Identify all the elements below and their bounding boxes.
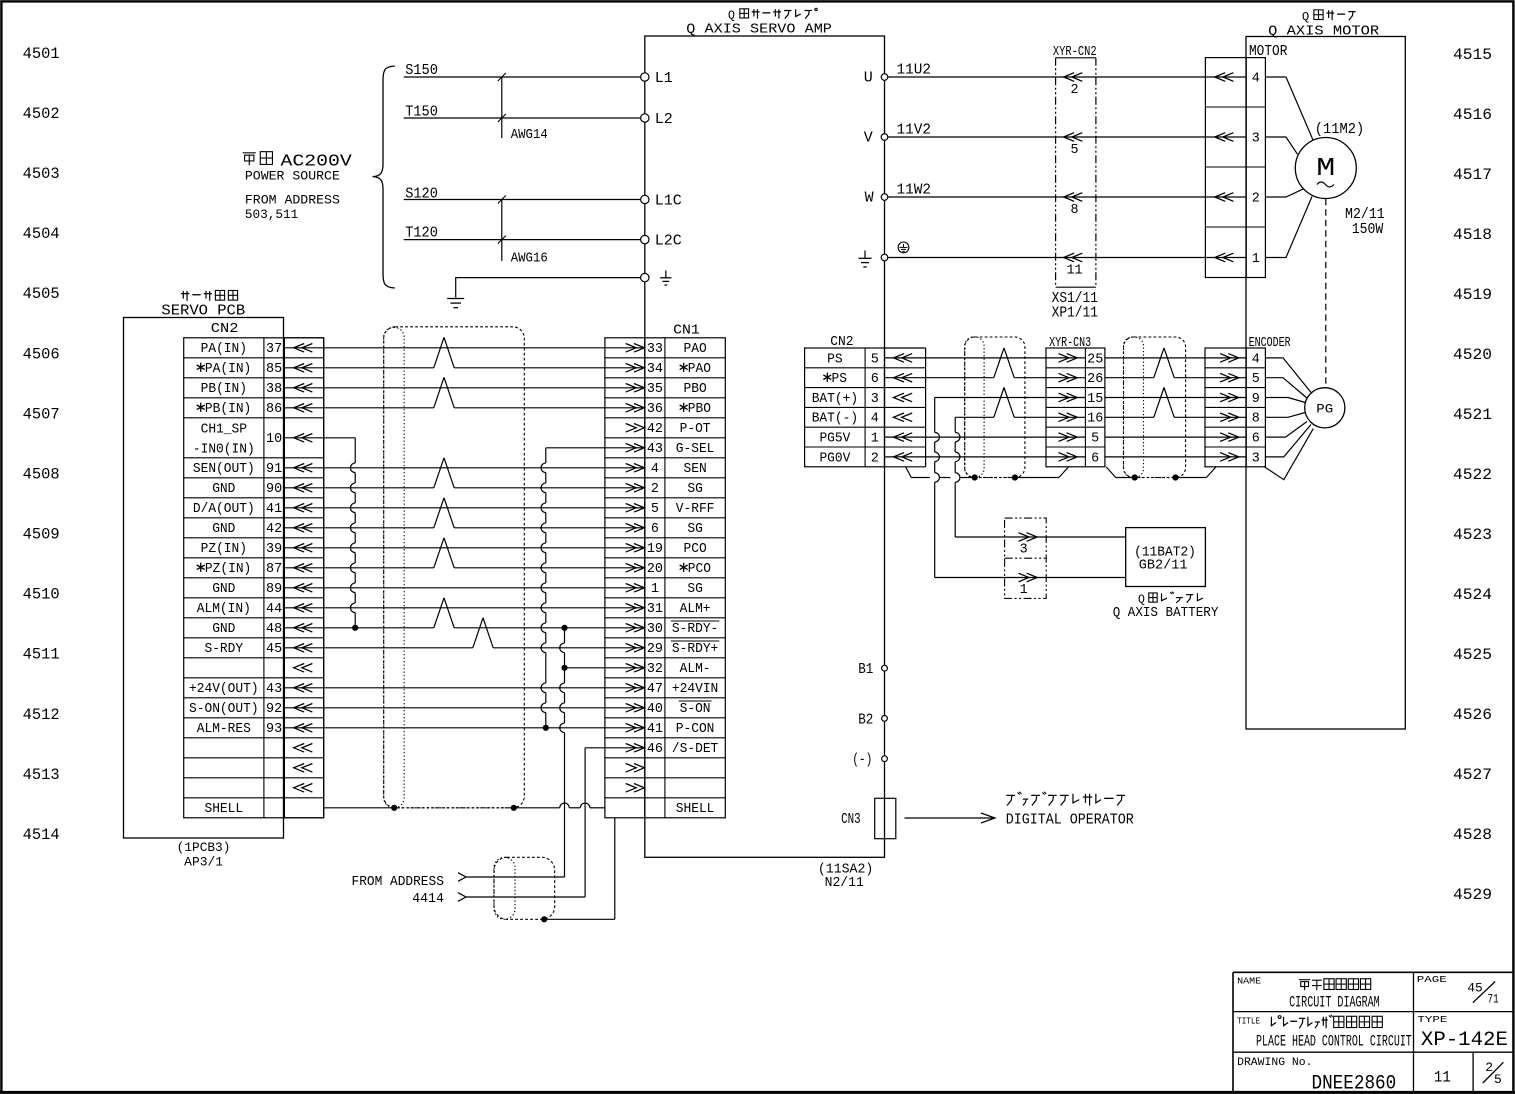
wire net ALM(IN)44 - ALM+31: [284, 607, 644, 609]
svg-text:2: 2: [871, 451, 879, 466]
svg-text:38: 38: [266, 382, 282, 397]
svg-text:V-RFF: V-RFF: [676, 502, 715, 517]
cable tie AWG14: [498, 73, 548, 143]
svg-text:PAO: PAO: [688, 362, 711, 377]
svg-text:4508: 4508: [23, 465, 60, 483]
title block frame: [1233, 972, 1513, 1092]
wire S120 to L1C: [404, 185, 642, 202]
svg-text:4528: 4528: [1453, 826, 1492, 844]
svg-text:5: 5: [1494, 1072, 1502, 1087]
svg-text:2: 2: [1070, 83, 1078, 98]
svg-text:11: 11: [1066, 264, 1082, 279]
svg-text:+24VIN: +24VIN: [672, 682, 718, 697]
svg-text:PB(IN): PB(IN): [205, 402, 251, 417]
svg-text:43: 43: [647, 442, 663, 457]
svg-text:20: 20: [647, 562, 663, 577]
svg-text:SHELL: SHELL: [676, 802, 715, 817]
wire net ALM-RES93 - P-CON41: [284, 727, 644, 729]
connector CN3 digital operator port: [875, 798, 896, 838]
svg-text:PBO: PBO: [684, 382, 707, 397]
svg-text:BAT(+): BAT(+): [812, 392, 858, 407]
svg-text:PCO: PCO: [688, 562, 711, 577]
svg-text:4513: 4513: [23, 766, 60, 784]
terminal L1C of servo amp: [641, 195, 649, 203]
svg-text:3: 3: [871, 392, 879, 407]
svg-text:44: 44: [266, 602, 282, 617]
svg-text:4521: 4521: [1453, 406, 1492, 424]
motor unit box (11M2): [1246, 37, 1405, 730]
connector ENCODER pin table: [1205, 348, 1265, 467]
wire net PB(IN)38 - PBO35: [284, 387, 644, 389]
right margin row numbers 4515-4529: [1453, 46, 1492, 904]
wire T120 to L2C: [404, 225, 642, 242]
svg-text:M2/11: M2/11: [1345, 207, 1385, 223]
svg-text:3: 3: [1252, 132, 1260, 147]
wire motor pin 4 to M: [1265, 77, 1313, 140]
svg-text:6: 6: [651, 522, 659, 537]
terminal B2: [882, 716, 888, 722]
connector XYR-CN3 table: [1046, 336, 1105, 467]
terminal V of servo amp: [881, 134, 888, 141]
svg-text:ALM-RES: ALM-RES: [197, 722, 251, 737]
svg-text:4510: 4510: [23, 586, 60, 604]
svg-text:L2: L2: [655, 111, 673, 128]
svg-text:4509: 4509: [23, 526, 60, 544]
svg-text:45: 45: [266, 642, 282, 657]
terminal W of servo amp: [881, 194, 888, 201]
svg-text:4414: 4414: [412, 891, 444, 907]
wire encoder pin 8 to PG: [1265, 413, 1305, 418]
svg-text:ALM(IN): ALM(IN): [197, 602, 251, 617]
svg-text:29: 29: [647, 642, 663, 657]
wire encoder pin 4 to PG: [1265, 358, 1311, 393]
svg-text:93: 93: [266, 722, 282, 737]
svg-text:SEN(OUT): SEN(OUT): [193, 462, 255, 477]
svg-text:D/A(OUT): D/A(OUT): [193, 502, 255, 517]
wire encoder pin 6 to PG: [1265, 422, 1307, 438]
svg-text:32: 32: [647, 662, 663, 677]
svg-text:L1C: L1C: [655, 193, 682, 210]
svg-text:16: 16: [1087, 412, 1103, 427]
svg-text:33: 33: [647, 342, 663, 357]
svg-text:26: 26: [1087, 372, 1103, 387]
wire net PZ(IN)39 - PCO19: [284, 547, 644, 549]
svg-text:5: 5: [1091, 432, 1099, 447]
svg-text:4: 4: [1252, 352, 1260, 367]
wire encoder pin 3 to PG: [1265, 425, 1311, 457]
svg-text:AP3/1: AP3/1: [184, 856, 223, 870]
svg-text:92: 92: [266, 702, 282, 717]
svg-text:4529: 4529: [1453, 886, 1492, 904]
svg-text:40: 40: [647, 702, 663, 717]
wire net SHELL shield drain CN2-CN1: [324, 807, 395, 809]
connector CN2 table on servo pcb: [184, 322, 324, 818]
svg-text:L2C: L2C: [655, 233, 682, 250]
svg-text:35: 35: [647, 382, 663, 397]
svg-text:PLACE HEAD CONTROL CIRCUIT: PLACE HEAD CONTROL CIRCUIT: [1256, 1033, 1412, 1051]
connector MOTOR pin table: [1205, 58, 1265, 278]
wire encoder shield to PG: [1265, 429, 1314, 480]
svg-text:CIRCUIT DIAGRAM: CIRCUIT DIAGRAM: [1289, 994, 1380, 1012]
svg-text:4514: 4514: [23, 826, 60, 844]
connector CN2 table amp right side: [805, 335, 926, 467]
label: FROM ADDRESS 503,511: [245, 193, 340, 222]
svg-text:2: 2: [651, 482, 659, 497]
svg-text:SG: SG: [687, 522, 702, 537]
wire net BAT(+) - 15 - encoder 9: [935, 397, 1086, 399]
connector XYR-CN2: [1053, 45, 1097, 287]
servo amplifier box (11SA2): [645, 36, 885, 857]
svg-text:4512: 4512: [23, 706, 60, 724]
svg-text:XYR-CN3: XYR-CN3: [1049, 336, 1091, 351]
wire net *PA(IN)85 - *PAO34 twisted pair: [284, 367, 433, 369]
svg-text:6: 6: [871, 372, 879, 387]
svg-text:5: 5: [871, 352, 879, 367]
svg-text:PZ(IN): PZ(IN): [205, 562, 251, 577]
svg-text:(-): (-): [852, 753, 872, 769]
svg-text:DRAWING No.: DRAWING No.: [1237, 1057, 1312, 1069]
svg-text:5: 5: [1252, 372, 1260, 387]
svg-text:/S-DET: /S-DET: [672, 742, 718, 757]
svg-text:S-RDY: S-RDY: [204, 642, 243, 657]
svg-text:L1: L1: [655, 70, 673, 87]
wire phase U 11U2 from amp to motor pin: [888, 63, 1246, 79]
wire S150 to L1: [404, 62, 642, 79]
svg-text:4526: 4526: [1453, 706, 1492, 724]
svg-text:36: 36: [647, 402, 663, 417]
svg-text:FROM ADDRESS: FROM ADDRESS: [352, 874, 444, 890]
wire BAT(-) vertical to battery pin 3: [954, 417, 956, 432]
svg-text:B2: B2: [858, 712, 873, 728]
svg-text:PAGE: PAGE: [1417, 974, 1447, 985]
svg-text:(11M2): (11M2): [1315, 122, 1364, 138]
svg-text:3: 3: [1252, 451, 1260, 466]
cable shield small at FROM ADDRESS: [494, 857, 555, 919]
svg-text:87: 87: [266, 562, 282, 577]
svg-text:2: 2: [1252, 192, 1260, 207]
svg-text:Q AXIS BATTERY: Q AXIS BATTERY: [1113, 605, 1219, 621]
svg-text:46: 46: [647, 742, 663, 757]
svg-text:PS: PS: [827, 352, 842, 367]
svg-text:S-ON(OUT): S-ON(OUT): [189, 702, 259, 717]
svg-text:P-CON: P-CON: [676, 722, 715, 737]
wire net *PZ(IN)87 - *PCO20 twisted pair: [284, 567, 433, 569]
svg-text:10: 10: [266, 432, 282, 447]
wire net *PS - 26 - encoder 5 twisted pairs: [885, 377, 994, 379]
svg-text:M: M: [1316, 153, 1335, 183]
svg-text:B1: B1: [858, 662, 873, 678]
svg-text:9: 9: [1252, 392, 1260, 407]
wire net *PB(IN)86 - *PBO36 twisted pair: [284, 407, 433, 409]
svg-text:8: 8: [1070, 203, 1078, 218]
svg-text:W: W: [865, 190, 874, 207]
svg-text:25: 25: [1087, 352, 1103, 367]
title block PAGE 45/71: [1417, 974, 1499, 1007]
arrow to digital operator: [905, 817, 994, 819]
wire encoder pin 9 to PG: [1265, 398, 1305, 403]
wire T150 to L2: [404, 104, 642, 121]
wire motor pin 3 to M: [1265, 137, 1297, 154]
title block NAME: CIRCUIT DIAGRAM: [1237, 975, 1380, 1011]
wire phase V 11V2 from amp to motor pin: [888, 123, 1246, 139]
svg-text:XYR-CN2: XYR-CN2: [1053, 45, 1097, 60]
label: DIGITAL OPERATOR: [1006, 792, 1134, 829]
svg-text:4506: 4506: [23, 345, 60, 363]
wire net PG5V - 5 - encoder 6: [885, 436, 1086, 438]
svg-text:8: 8: [1252, 412, 1260, 427]
svg-text:XP1/11: XP1/11: [1052, 305, 1098, 321]
svg-text:39: 39: [266, 542, 282, 557]
svg-text:(1PCB3): (1PCB3): [177, 841, 231, 855]
svg-text:4: 4: [871, 412, 879, 427]
svg-text:G-SEL: G-SEL: [676, 442, 715, 457]
svg-text:Q AXIS SERVO AMP: Q AXIS SERVO AMP: [686, 22, 832, 38]
svg-text:1: 1: [871, 432, 879, 447]
svg-text:V: V: [864, 130, 873, 147]
wire net PG0V - 6 - encoder 3: [885, 456, 1086, 458]
svg-text:N2/11: N2/11: [825, 875, 864, 891]
svg-text:4522: 4522: [1453, 466, 1492, 484]
svg-text:15: 15: [1087, 392, 1103, 407]
label: Q AXIS BATTERY: [1113, 592, 1219, 622]
svg-text:CN2: CN2: [211, 322, 239, 337]
svg-text:TITLE: TITLE: [1237, 1015, 1260, 1026]
battery (11BAT2) GB2/11: [1126, 528, 1206, 587]
svg-text:43: 43: [266, 682, 282, 697]
svg-text:45: 45: [1467, 982, 1483, 996]
svg-text:PZ(IN): PZ(IN): [201, 542, 247, 557]
wire BAT(+) vertical to battery pin 1: [934, 398, 936, 433]
svg-text:11U2: 11U2: [897, 63, 932, 79]
svg-text:4518: 4518: [1453, 226, 1492, 244]
svg-text:SG: SG: [687, 582, 702, 597]
svg-text:ALM-: ALM-: [680, 662, 711, 677]
svg-text:PS: PS: [831, 372, 846, 387]
svg-text:5: 5: [651, 502, 659, 517]
terminal (-): [882, 756, 888, 762]
terminal L2 of servo amp: [641, 114, 649, 122]
svg-text:1: 1: [651, 582, 659, 597]
ground symbol power input: [447, 298, 464, 300]
wire net S-ON(OUT)92 - S-ON40: [284, 707, 644, 709]
svg-text:6: 6: [1091, 451, 1099, 466]
svg-text:89: 89: [266, 582, 282, 597]
svg-text:37: 37: [266, 342, 282, 357]
wire net S-RDY45 - S-RDY+29 twisted pair: [284, 647, 472, 649]
svg-text:4511: 4511: [23, 646, 60, 664]
svg-text:CN1: CN1: [673, 324, 700, 339]
svg-text:503,511: 503,511: [245, 208, 298, 222]
label: Q AXIS MOTOR: [1268, 10, 1380, 39]
svg-text:U: U: [864, 70, 873, 87]
label: power source 電源 AC200V: [243, 152, 353, 172]
svg-text:11W2: 11W2: [897, 183, 932, 199]
label: FROM ADDRESS 4414: [352, 874, 444, 907]
svg-text:4524: 4524: [1453, 586, 1492, 604]
svg-text:GND: GND: [212, 522, 235, 537]
wire net GND48 - S-RDY-30 twisted pair: [284, 627, 433, 629]
svg-text:CN3: CN3: [841, 812, 861, 828]
svg-text:2: 2: [1485, 1060, 1493, 1075]
terminal PE right of servo amp with ground symbol: [881, 254, 888, 261]
svg-text:4: 4: [651, 462, 659, 477]
svg-text:11: 11: [1434, 1069, 1451, 1087]
svg-text:31: 31: [647, 602, 663, 617]
svg-text:4519: 4519: [1453, 286, 1492, 304]
svg-text:PG5V: PG5V: [819, 432, 850, 447]
svg-text:5: 5: [1070, 143, 1078, 158]
wire net SEN(OUT)91 - SEN4: [284, 467, 644, 469]
svg-text:34: 34: [647, 362, 663, 377]
wire vertical S-RDY-/ALM- to FROM ADDRESS: [564, 628, 566, 643]
svg-text:71: 71: [1488, 993, 1499, 1007]
svg-text:GND: GND: [212, 582, 235, 597]
svg-text:PBO: PBO: [688, 402, 711, 417]
svg-text:4505: 4505: [23, 285, 60, 303]
cable shield encoder right dashed: [1124, 337, 1186, 478]
wire phase W 11W2 from amp to motor pin: [888, 183, 1246, 199]
wire net ALM-32 branch: [565, 667, 645, 669]
svg-text:PAO: PAO: [684, 342, 707, 357]
svg-text:PG: PG: [1316, 401, 1333, 416]
svg-text:GND: GND: [212, 622, 235, 637]
svg-text:PCO: PCO: [684, 542, 707, 557]
svg-text:48: 48: [266, 622, 282, 637]
svg-text:SEN: SEN: [684, 462, 707, 477]
motor M (11M2) 150W: [1295, 122, 1384, 238]
svg-text:4516: 4516: [1453, 106, 1492, 124]
svg-text:1: 1: [1020, 583, 1028, 598]
svg-text:DNEE2860: DNEE2860: [1312, 1073, 1397, 1094]
svg-text:3: 3: [1020, 543, 1028, 558]
svg-text:Q: Q: [1302, 10, 1309, 24]
svg-text:FROM ADDRESS: FROM ADDRESS: [245, 193, 340, 207]
svg-text:Q: Q: [728, 9, 735, 22]
title block TITLE: PLACE HEAD CONTROL CIRCUIT: [1237, 1015, 1412, 1051]
svg-text:TYPE: TYPE: [1417, 1014, 1447, 1025]
svg-text:11V2: 11V2: [897, 123, 932, 139]
svg-text:86: 86: [266, 402, 282, 417]
svg-text:90: 90: [266, 482, 282, 497]
svg-text:4515: 4515: [1453, 46, 1492, 64]
svg-text:PA(IN): PA(IN): [201, 342, 247, 357]
svg-text:41: 41: [647, 722, 663, 737]
svg-text:SG: SG: [687, 482, 702, 497]
svg-text:150W: 150W: [1352, 222, 1384, 238]
svg-text:DIGITAL OPERATOR: DIGITAL OPERATOR: [1006, 812, 1134, 829]
svg-text:4507: 4507: [23, 405, 60, 423]
encoder PG: [1305, 388, 1345, 428]
wire net PA(IN)37 - PAO33: [284, 347, 644, 349]
svg-text:4517: 4517: [1453, 166, 1492, 184]
label: Q AXIS SERVO AMP: [686, 8, 832, 37]
terminal L2C of servo amp: [641, 235, 649, 243]
svg-text:+24V(OUT): +24V(OUT): [189, 682, 259, 697]
wire CH1_SP pin10 branch to GND48 net: [284, 437, 355, 439]
wire earth to amp ground terminal: [456, 278, 642, 298]
shaft coupling M to PG dashed: [1325, 199, 1327, 388]
cable shield encoder left dashed: [965, 337, 1025, 478]
cable tie AWG16: [498, 196, 548, 267]
svg-text:ALM+: ALM+: [680, 602, 711, 617]
svg-text:19: 19: [647, 542, 663, 557]
wire CN1 SHELL to cable shield below: [614, 818, 616, 920]
svg-text:-IN0(IN): -IN0(IN): [193, 443, 255, 458]
wire motor pin 2 to M: [1265, 189, 1303, 197]
wire net GND89 - SG1: [284, 587, 644, 589]
wire net /S-DET46 from below: [585, 747, 645, 749]
wire net GND90 - SG2 twisted pair: [284, 487, 433, 489]
svg-text:4525: 4525: [1453, 646, 1492, 664]
cable shield inner tube CN2-CN1 dotted: [384, 327, 405, 808]
left margin row numbers 4501-4514: [23, 45, 60, 844]
svg-text:85: 85: [266, 362, 282, 377]
svg-text:42: 42: [647, 422, 663, 437]
svg-text:4520: 4520: [1453, 346, 1492, 364]
power source brace: [373, 66, 395, 288]
svg-text:41: 41: [266, 502, 282, 517]
label: (11SA2) N2/11: [818, 862, 873, 892]
wire net +24V(OUT)43 - +24VIN47: [284, 687, 644, 689]
svg-text:S-RDY+: S-RDY+: [672, 642, 718, 657]
svg-text:CH1_SP: CH1_SP: [201, 423, 247, 438]
svg-text:AWG14: AWG14: [511, 127, 548, 143]
label: XS1/11 XP1/11: [1052, 291, 1098, 322]
wire vertical /S-DET to FROM ADDRESS 4414: [584, 748, 586, 897]
svg-text:AWG16: AWG16: [511, 250, 548, 266]
svg-text:P-OT: P-OT: [680, 422, 711, 437]
svg-text:GB2/11: GB2/11: [1139, 558, 1188, 574]
svg-text:4: 4: [1252, 72, 1260, 87]
terminal PE of servo amp with ground symbol: [641, 273, 649, 281]
terminal U of servo amp: [881, 74, 888, 81]
title block DRAWING No. DNEE2860: [1237, 1057, 1396, 1094]
svg-text:PG0V: PG0V: [819, 451, 850, 466]
wire motor pin 1 to M: [1265, 197, 1312, 258]
wire net G-SEL43 vertical branch to P-CON: [546, 447, 645, 449]
wire net D/A(OUT)41 - V-RFF5: [284, 507, 644, 509]
svg-text:4523: 4523: [1453, 526, 1492, 544]
svg-text:42: 42: [266, 522, 282, 537]
svg-text:1: 1: [1252, 252, 1260, 267]
svg-text:POWER SOURCE: POWER SOURCE: [245, 170, 340, 184]
svg-text:4502: 4502: [23, 105, 60, 123]
svg-text:4527: 4527: [1453, 766, 1492, 784]
label: (1PCB3) AP3/1: [177, 841, 231, 870]
svg-text:30: 30: [647, 622, 663, 637]
svg-text:GND: GND: [212, 482, 235, 497]
svg-text:PA(IN): PA(IN): [205, 362, 251, 377]
servo pcb board box (1PCB3): [124, 318, 284, 839]
shield drain wire encoder cables: [906, 467, 912, 478]
terminal L1 of servo amp: [641, 73, 649, 81]
svg-text:ENCODER: ENCODER: [1249, 336, 1291, 351]
svg-text:4504: 4504: [23, 225, 60, 243]
svg-text:PB(IN): PB(IN): [201, 382, 247, 397]
terminal B1: [882, 665, 888, 671]
svg-text:4503: 4503: [23, 165, 60, 183]
connector battery dash-dot: [1005, 518, 1047, 598]
svg-text:91: 91: [266, 462, 282, 477]
wire net GND42 - SG6 twisted pair: [284, 527, 433, 529]
svg-text:6: 6: [1252, 432, 1260, 447]
svg-text:S-RDY-: S-RDY-: [672, 622, 718, 637]
wire net PS - 25 - encoder 4: [885, 357, 1086, 359]
svg-text:4501: 4501: [23, 45, 60, 63]
wire net BAT(-) - 16 - encoder 8 twisted pairs: [955, 416, 994, 418]
svg-text:NAME: NAME: [1237, 975, 1261, 986]
connector CN1 table on servo amp: [605, 324, 725, 818]
